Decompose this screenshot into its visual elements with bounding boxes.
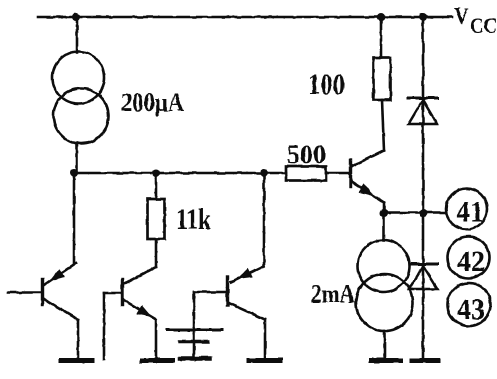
current source I1 200uA top circle bbox=[53, 52, 105, 104]
resistor R2 11k bottom lead bbox=[155, 239, 158, 267]
resistor R1 100 body bbox=[374, 58, 391, 100]
wire output bus to diode D2 bbox=[422, 213, 425, 289]
wire bus to Q1 emitter bbox=[73, 173, 76, 263]
ground below D2 bbox=[412, 358, 439, 363]
resistor R3 500 body bbox=[286, 167, 326, 181]
node junction dot top rail left bbox=[72, 13, 80, 21]
transistor Q1 collector bbox=[44, 299, 78, 320]
wire D1 to output bus bbox=[422, 124, 425, 213]
svg-text:11k: 11k bbox=[176, 203, 211, 236]
node junction dot bus at Q3 bbox=[260, 169, 268, 177]
svg-text:43: 43 bbox=[457, 293, 485, 326]
wire I2 to ground bbox=[383, 331, 386, 357]
diode D1 cathode bar bbox=[408, 97, 438, 100]
node terminal circle 42 bbox=[448, 237, 490, 279]
net label VCC bbox=[454, 4, 497, 39]
transistor Q2 emitter arrow bbox=[138, 306, 150, 316]
node junction dot top rail at 100 resistor bbox=[377, 13, 385, 21]
wire from current source I1 to bus bbox=[76, 143, 79, 173]
resistor R2 11k top lead bbox=[155, 173, 158, 199]
wire Q3 base to capacitor bbox=[193, 292, 196, 357]
wire D2 to ground bbox=[422, 289, 425, 357]
transistor Q2 collector bbox=[125, 267, 157, 284]
wire Q2 base lead bbox=[104, 292, 121, 295]
wire Q3 base lead bbox=[194, 291, 226, 294]
transistor Q1 base bar bbox=[41, 280, 44, 305]
wire rail to diode D1 bbox=[422, 17, 425, 124]
wire bus to Q3 emitter bbox=[263, 173, 266, 266]
capacitor C1 bottom plate bbox=[180, 340, 208, 343]
diode D2 triangle bbox=[409, 266, 438, 289]
ground below capacitor C1 bbox=[181, 356, 210, 361]
svg-text:V: V bbox=[454, 4, 469, 29]
wire output bus bbox=[384, 211, 446, 214]
node junction dot output at diode bbox=[420, 209, 428, 217]
transistor Q4 emitter arrow bbox=[360, 185, 372, 195]
transistor Q2 base bar bbox=[121, 280, 124, 306]
svg-text:42: 42 bbox=[457, 245, 485, 278]
current source I1 200uA bottom circle bbox=[54, 89, 109, 144]
ground below Q2 bbox=[142, 358, 173, 363]
capacitor C1 top plate bbox=[167, 329, 222, 332]
wire Q1 collector to ground bbox=[77, 320, 80, 358]
wire VCC top rail bbox=[38, 16, 452, 19]
transistor Q2 emitter bbox=[125, 301, 157, 320]
transistor Q4 base bar bbox=[349, 160, 352, 187]
svg-text:41: 41 bbox=[456, 196, 484, 229]
wire Q1 base lead bbox=[8, 291, 41, 294]
transistor Q3 emitter arrow bbox=[239, 269, 252, 278]
wire from rail to current source I1 bbox=[76, 17, 79, 53]
node junction dot bus left bbox=[70, 169, 78, 177]
node junction dot top rail at diode bbox=[419, 13, 427, 21]
node junction dot bus at 11k bbox=[152, 169, 160, 177]
wire Q2 input stub bbox=[103, 293, 106, 359]
wire Q2 emitter to ground bbox=[155, 320, 158, 358]
node junction dot output at Q4 emitter bbox=[380, 209, 388, 217]
node terminal circle 43 bbox=[448, 283, 491, 326]
wire Q4 emitter to output bus bbox=[383, 203, 386, 214]
wire Q4 collector to R1 bbox=[382, 100, 384, 151]
svg-text:100: 100 bbox=[308, 68, 345, 101]
transistor Q3 collector bbox=[230, 304, 266, 320]
resistor R1 100 top lead bbox=[380, 17, 383, 58]
wire middle bus bbox=[74, 172, 286, 175]
current source I2 2mA bottom circle bbox=[356, 274, 413, 331]
node terminal circle 41 bbox=[446, 189, 487, 230]
transistor Q4 collector bbox=[353, 151, 385, 167]
svg-text:2mA: 2mA bbox=[311, 280, 355, 309]
transistor Q4 emitter bbox=[353, 182, 385, 203]
wire Q3 collector to ground bbox=[264, 320, 267, 358]
resistor R2 11k body bbox=[148, 199, 165, 239]
svg-text:500: 500 bbox=[287, 140, 326, 169]
svg-text:CC: CC bbox=[470, 13, 497, 38]
transistor Q3 base bar bbox=[226, 277, 229, 305]
ground below I2 bbox=[371, 358, 400, 363]
diode D1 triangle bbox=[409, 100, 438, 124]
transistor Q1 emitter bbox=[44, 263, 76, 285]
wire output bus to current source I2 bbox=[382, 213, 385, 241]
transistor Q1 emitter arrow bbox=[51, 270, 63, 280]
diode D2 cathode bar bbox=[412, 263, 437, 266]
svg-text:200μA: 200μA bbox=[121, 88, 184, 117]
transistor Q3 emitter bbox=[231, 266, 264, 282]
current source I2 2mA top circle bbox=[358, 240, 410, 292]
ground below Q3 bbox=[249, 358, 280, 363]
wire R3 to Q4 base bbox=[326, 172, 349, 175]
ground below Q1 bbox=[61, 358, 92, 363]
